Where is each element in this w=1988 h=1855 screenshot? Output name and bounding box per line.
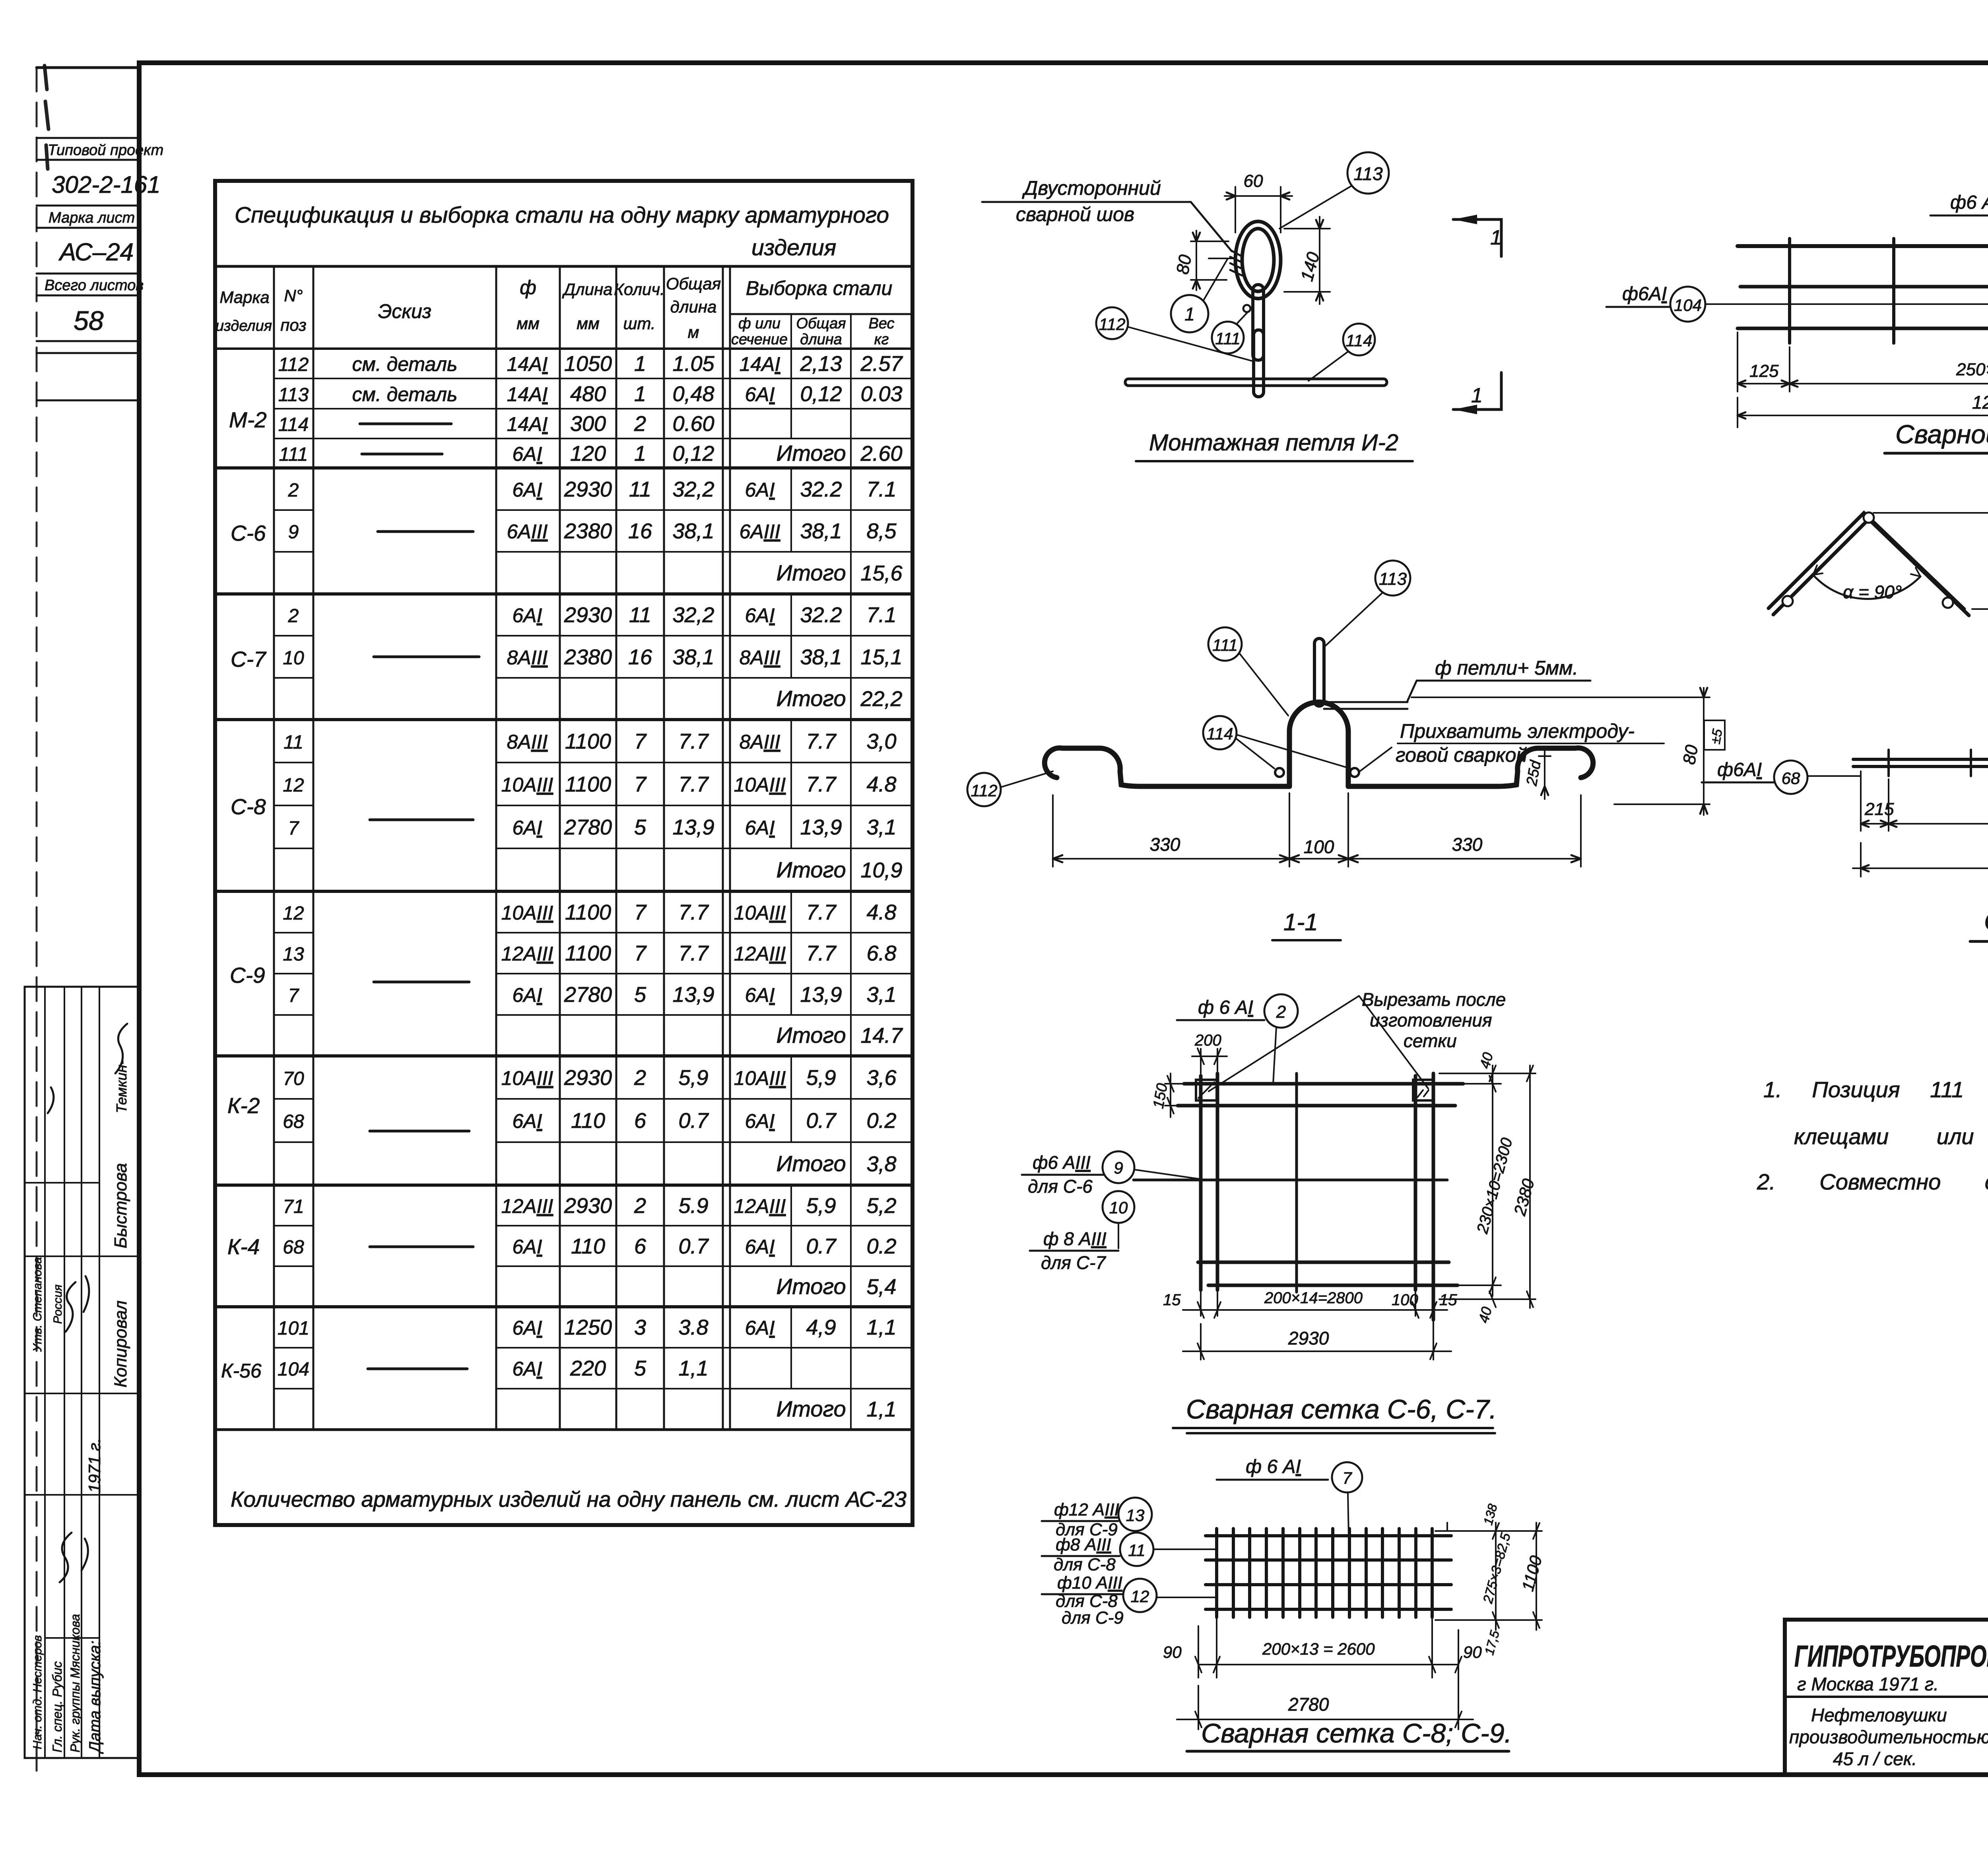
label circle 113 [1347, 152, 1389, 194]
svg-text:6АI: 6АI [512, 479, 542, 501]
svg-text:1,1: 1,1 [866, 1397, 896, 1421]
label circle 1 [1171, 295, 1208, 332]
label f8AIII circle 10 (C-7) [1103, 1191, 1134, 1223]
svg-text:1250: 1250 [1972, 392, 1988, 413]
svg-text:200×13 = 2600: 200×13 = 2600 [1262, 1640, 1375, 1658]
svg-text:2: 2 [634, 1066, 646, 1090]
svg-text:14АI: 14АI [507, 413, 548, 435]
vertical x8 with merged Itogo gaps [790, 314, 792, 1389]
leaders to corner squares [1209, 996, 1428, 1091]
dim 60 top [1225, 187, 1292, 233]
table body text [278, 352, 903, 1421]
svg-text:113: 113 [1353, 163, 1383, 184]
row lines K-2 [274, 1099, 912, 1142]
svg-text:Итого: Итого [776, 686, 846, 711]
svg-text:5,2: 5,2 [866, 1194, 896, 1218]
right dim extensions [1435, 1523, 1542, 1630]
angle arc and label [1813, 575, 1920, 599]
welded mesh C-6 C-7 [1022, 989, 1538, 1433]
svg-text:12АIII: 12АIII [734, 1195, 786, 1217]
svg-text:для С-8: для С-8 [1054, 1555, 1116, 1574]
svg-text:38,1: 38,1 [800, 645, 842, 669]
svg-text:Типовой проект: Типовой проект [48, 142, 163, 159]
row lines C-7 [274, 636, 912, 678]
horizontal bars [1184, 1082, 1463, 1086]
svg-text:101: 101 [278, 1318, 309, 1339]
svg-text:12: 12 [283, 775, 304, 796]
svg-text:Прихватить электроду-: Прихватить электроду- [1400, 720, 1635, 742]
svg-text:длина: длина [800, 331, 842, 348]
svg-text:15: 15 [1439, 1291, 1457, 1309]
svg-text:для С-7: для С-7 [1041, 1252, 1106, 1273]
svg-text:Дата выпуска:: Дата выпуска: [86, 1641, 104, 1754]
svg-text:32,2: 32,2 [672, 477, 714, 501]
bent wire tent [1769, 513, 1964, 609]
svg-text:1050: 1050 [564, 352, 612, 376]
svg-text:4.8: 4.8 [866, 900, 896, 924]
svg-text:1100: 1100 [565, 941, 611, 965]
svg-text:114: 114 [278, 414, 309, 435]
svg-text:2930: 2930 [564, 1194, 612, 1218]
svg-text:2: 2 [288, 480, 299, 501]
specification table [215, 181, 912, 1525]
svg-text:3,8: 3,8 [866, 1152, 896, 1176]
rod lower end through bar [1254, 374, 1264, 396]
svg-text:9: 9 [1114, 1158, 1123, 1177]
svg-text:111: 111 [1212, 636, 1238, 654]
svg-text:Общая: Общая [796, 315, 846, 332]
section 1-1 drawing [967, 561, 1725, 940]
svg-text:11: 11 [629, 477, 651, 501]
svg-text:2: 2 [634, 1194, 646, 1218]
svg-text:1-1: 1-1 [1283, 909, 1318, 935]
svg-text:Монтажная петля И-2: Монтажная петля И-2 [1149, 430, 1398, 456]
svg-text:5,9: 5,9 [678, 1066, 708, 1090]
svg-text:200: 200 [1194, 1032, 1221, 1049]
svg-text:0.03: 0.03 [860, 382, 902, 406]
svg-text:Колич.: Колич. [614, 280, 665, 299]
svg-text:12: 12 [283, 903, 304, 924]
svg-text:Итого: Итого [776, 440, 846, 466]
svg-text:6АIII: 6АIII [507, 520, 548, 543]
row lines K-4 [274, 1226, 912, 1266]
svg-text:С-8: С-8 [231, 794, 266, 819]
grid verticals [1217, 1529, 1432, 1617]
svg-text:2. Совместно см. лист АС-23.: 2. Совместно см. лист АС-23. [1757, 1169, 1988, 1194]
svg-text:14АI: 14АI [740, 353, 780, 375]
svg-text:ф 6 АI: ф 6 АI [1198, 997, 1253, 1018]
svg-text:0.7: 0.7 [678, 1109, 709, 1133]
svg-text:производительностью: производительностью [1789, 1727, 1988, 1747]
svg-text:14АI: 14АI [507, 383, 548, 406]
svg-text:3,6: 3,6 [866, 1066, 897, 1090]
svg-text:2380: 2380 [564, 519, 612, 543]
svg-text:С-7: С-7 [231, 647, 267, 671]
svg-text:3,0: 3,0 [866, 730, 896, 753]
svg-text:Эскиз: Эскиз [378, 300, 431, 322]
svg-text:Гл. спец. Рубис: Гл. спец. Рубис [50, 1661, 64, 1752]
svg-text:120: 120 [570, 442, 606, 466]
svg-text:8АIII: 8АIII [507, 646, 548, 669]
svg-text:5.9: 5.9 [678, 1194, 708, 1218]
svg-text:220: 220 [570, 1356, 606, 1380]
label circle 111 [1212, 322, 1244, 353]
svg-text:10: 10 [283, 648, 304, 669]
svg-text:±5: ±5 [1708, 728, 1725, 745]
svg-text:1: 1 [634, 382, 646, 406]
svg-text:80: 80 [1679, 743, 1702, 766]
svg-text:10: 10 [1109, 1198, 1128, 1217]
svg-text:2930: 2930 [564, 603, 612, 627]
svg-text:2380: 2380 [564, 645, 612, 669]
svg-text:1971 г.: 1971 г. [85, 1438, 104, 1493]
grid horizontals [1206, 1536, 1451, 1609]
label circle 111 [1208, 627, 1242, 661]
svg-text:2,13: 2,13 [800, 352, 842, 376]
svg-text:112: 112 [1099, 315, 1126, 334]
bottom dim 2930 [1183, 1324, 1451, 1360]
svg-text:7.7: 7.7 [678, 730, 709, 753]
svg-text:Утв. Степанова: Утв. Степанова [31, 1257, 44, 1352]
svg-text:С-6: С-6 [231, 521, 266, 545]
svg-text:Количество арматурных издели: Количество арматурных изделий на одну па… [231, 1487, 907, 1512]
svg-text:сетки: сетки [1404, 1030, 1457, 1051]
weld dots [1275, 768, 1284, 777]
svg-text:6.8: 6.8 [866, 941, 896, 965]
svg-text:сварной шов: сварной шов [1016, 203, 1134, 225]
svg-text:4,9: 4,9 [806, 1316, 836, 1339]
svg-text:7: 7 [1342, 1469, 1352, 1487]
svg-text:ф6АI: ф6АI [1717, 759, 1762, 780]
svg-text:6АI: 6АI [512, 984, 542, 1006]
svg-text:11: 11 [629, 603, 651, 627]
svg-text:6АI: 6АI [745, 817, 775, 839]
svg-text:9: 9 [288, 522, 299, 543]
dim 2780 [1177, 1686, 1473, 1729]
svg-text:3: 3 [634, 1316, 646, 1339]
stub pos 113 on top [1314, 638, 1324, 706]
svg-text:104: 104 [1674, 296, 1702, 314]
bent wire: left hook and arm [1044, 748, 1289, 786]
mounting loop drawing (Монтажная петля И-2) [982, 152, 1502, 461]
leader box from 80 dim to weld [1209, 258, 1236, 259]
svg-text:15: 15 [1163, 1291, 1181, 1309]
svg-text:45 л / сек.: 45 л / сек. [1833, 1748, 1917, 1769]
svg-text:7: 7 [288, 985, 300, 1006]
svg-text:215: 215 [1864, 799, 1894, 819]
svg-text:11: 11 [283, 732, 303, 753]
svg-text:112: 112 [278, 354, 309, 375]
svg-text:мм: мм [577, 314, 600, 333]
svg-text:38,1: 38,1 [800, 519, 842, 543]
svg-text:300: 300 [570, 412, 606, 436]
svg-text:6АI: 6АI [745, 984, 775, 1006]
K-56 after bending (заготовка) [1769, 502, 1988, 671]
svg-text:ф 6 АI: ф 6 АI [1246, 1456, 1301, 1477]
svg-text:10АIII: 10АIII [501, 1067, 553, 1089]
svg-text:13: 13 [283, 944, 304, 965]
svg-text:6АI: 6АI [512, 1317, 542, 1339]
svg-text:250×4 = 1000: 250×4 = 1000 [1956, 360, 1988, 379]
svg-text:5,9: 5,9 [806, 1066, 836, 1090]
svg-text:Итого: Итого [776, 560, 846, 585]
svg-text:5: 5 [634, 983, 646, 1007]
svg-text:1: 1 [634, 442, 646, 466]
svg-text:Вес: Вес [868, 315, 894, 332]
svg-text:13,9: 13,9 [672, 983, 714, 1007]
svg-text:13,9: 13,9 [800, 815, 842, 839]
svg-text:71: 71 [283, 1196, 304, 1217]
svg-text:длина: длина [670, 297, 717, 316]
svg-text:114: 114 [1207, 724, 1233, 743]
svg-text:10АIII: 10АIII [734, 774, 786, 796]
label circle 114 with two leaders [1203, 716, 1237, 749]
svg-text:2.57: 2.57 [860, 352, 903, 376]
svg-text:сечение: сечение [731, 331, 788, 348]
svg-text:1: 1 [1184, 304, 1195, 324]
svg-text:Двусторонний: Двусторонний [1022, 177, 1161, 199]
svg-text:ф8 АIII: ф8 АIII [1056, 1535, 1111, 1554]
table grid verticals [274, 266, 664, 1430]
svg-text:480: 480 [570, 382, 606, 406]
bottom dims 90 / 200x13=2600 / 90 [1198, 1617, 1458, 1729]
svg-text:58: 58 [74, 306, 104, 336]
svg-text:111: 111 [279, 444, 308, 465]
vertical bars (pos 104) [1790, 239, 1988, 343]
svg-text:1,1: 1,1 [678, 1356, 708, 1380]
svg-text:13,9: 13,9 [800, 983, 842, 1007]
dim 80±5 right [1411, 688, 1710, 815]
svg-text:8АIII: 8АIII [740, 731, 780, 753]
svg-text:7: 7 [634, 730, 647, 753]
rod pos 112 vertical [1253, 285, 1264, 360]
dim 200 top-left [1192, 1049, 1227, 1073]
svg-text:см. деталь: см. деталь [352, 383, 458, 406]
svg-text:ГИПРОТРУБОПРОВОД: ГИПРОТРУБОПРОВОД [1794, 1640, 1988, 1673]
svg-text:Нач. отд. Нестеров: Нач. отд. Нестеров [31, 1635, 44, 1749]
svg-text:32.2: 32.2 [800, 603, 842, 627]
bar 114 side lines [1324, 702, 1408, 709]
svg-text:Марка лист: Марка лист [49, 210, 135, 226]
svg-text:ф петли+ 5мм.: ф петли+ 5мм. [1435, 657, 1578, 679]
sketch dashes [360, 424, 451, 454]
signature scribbles [48, 1024, 127, 1582]
svg-text:1. Позиция 111 приваривается: 1. Позиция 111 приваривается к петле сва… [1763, 1077, 1988, 1102]
title block [1785, 1620, 1988, 1775]
svg-text:12АIII: 12АIII [501, 943, 553, 965]
svg-text:6АI: 6АI [512, 1358, 542, 1380]
svg-text:22,2: 22,2 [860, 687, 902, 711]
svg-text:12: 12 [1131, 1587, 1149, 1606]
svg-text:38,1: 38,1 [672, 519, 714, 543]
svg-text:Общая: Общая [666, 274, 721, 293]
svg-text:6АI: 6АI [512, 1236, 542, 1258]
right dims 40 / 230x10=2300 / 2380 / 40 [1437, 1065, 1536, 1308]
svg-text:Марка: Марка [219, 288, 269, 307]
svg-text:6АI: 6АI [512, 604, 542, 627]
svg-text:7: 7 [634, 772, 647, 796]
svg-text:7.7: 7.7 [806, 941, 837, 965]
svg-text:2.60: 2.60 [860, 442, 902, 466]
svg-text:С-9: С-9 [230, 963, 265, 988]
section mark 1 top [1453, 219, 1501, 256]
svg-text:10АIII: 10АIII [734, 1067, 786, 1089]
svg-text:100: 100 [1304, 836, 1334, 857]
svg-text:кг: кг [874, 331, 889, 348]
svg-text:16: 16 [628, 519, 652, 543]
svg-text:7.7: 7.7 [806, 730, 837, 753]
dim 25d [1539, 749, 1551, 799]
svg-text:К-4: К-4 [227, 1234, 260, 1259]
label f6AIII circle 9 (C-6) [1028, 1152, 1093, 1197]
row lines C-6 [274, 510, 912, 552]
svg-text:330: 330 [1150, 834, 1180, 855]
svg-text:3,1: 3,1 [866, 815, 896, 839]
svg-text:6: 6 [634, 1234, 646, 1258]
svg-text:100: 100 [1392, 1291, 1418, 1309]
svg-text:ф6 АI: ф6 АI [1950, 192, 1988, 213]
svg-text:α = 90°: α = 90° [1843, 582, 1902, 602]
weld note text [1016, 177, 1161, 225]
svg-text:см. деталь: см. деталь [352, 353, 458, 375]
svg-text:1,1: 1,1 [866, 1316, 896, 1339]
svg-text:1.05: 1.05 [672, 352, 714, 376]
table title [235, 202, 889, 260]
svg-text:Рук. группы Мясникова: Рук. группы Мясникова [68, 1614, 82, 1752]
svg-text:3,1: 3,1 [866, 983, 896, 1007]
svg-text:ф6АI: ф6АI [1622, 283, 1667, 305]
svg-text:113: 113 [278, 384, 309, 406]
svg-text:12АIII: 12АIII [501, 1195, 553, 1217]
svg-text:Сварной каркас К-2; К-4: Сварной каркас К-2; К-4 [1984, 906, 1988, 936]
svg-text:ф или: ф или [738, 315, 780, 332]
svg-text:0,48: 0,48 [672, 382, 714, 406]
svg-text:38,1: 38,1 [672, 645, 714, 669]
svg-text:2: 2 [634, 412, 646, 436]
svg-text:1100: 1100 [565, 900, 611, 924]
svg-text:1: 1 [1471, 384, 1483, 407]
svg-text:6АI: 6АI [745, 604, 775, 627]
row lines C-8 [274, 763, 912, 848]
svg-text:изготовления: изготовления [1370, 1010, 1492, 1030]
dim 80 left [1191, 231, 1229, 290]
svg-text:7: 7 [288, 818, 300, 839]
svg-text:Итого: Итого [776, 1274, 846, 1299]
bottom-left stamp (rotated signature block) [25, 987, 139, 1758]
svg-text:N°: N° [284, 286, 303, 305]
svg-text:15,1: 15,1 [860, 645, 902, 669]
dims 125 / 250x4=1000 / 125 [1738, 328, 1988, 392]
svg-text:230×10=2300: 230×10=2300 [1474, 1136, 1516, 1236]
svg-text:Вырезать после: Вырезать после [1362, 989, 1506, 1010]
svg-text:2780: 2780 [564, 815, 612, 839]
svg-text:0.2: 0.2 [866, 1109, 896, 1133]
header text [215, 274, 895, 348]
svg-text:Быстрова: Быстрова [111, 1163, 130, 1248]
svg-text:Спецификация и выборка стали н: Спецификация и выборка стали на одну мар… [235, 202, 889, 228]
svg-text:3.8: 3.8 [678, 1316, 708, 1339]
svg-text:мм: мм [516, 314, 540, 333]
svg-text:8,5: 8,5 [866, 519, 897, 543]
svg-text:изделия: изделия [215, 318, 272, 334]
svg-text:Всего листов: Всего листов [45, 277, 144, 294]
central U [1289, 702, 1348, 786]
svg-text:7.7: 7.7 [678, 900, 709, 924]
svg-text:6АI: 6АI [745, 1236, 775, 1258]
svg-text:для С-9: для С-9 [1062, 1608, 1124, 1628]
svg-text:4.8: 4.8 [866, 772, 896, 796]
svg-text:2: 2 [1276, 1002, 1286, 1022]
svg-text:40: 40 [1475, 1305, 1495, 1325]
svg-text:2930: 2930 [564, 1066, 612, 1090]
right arm and hook [1348, 748, 1593, 786]
svg-text:Россия: Россия [51, 1285, 64, 1324]
svg-text:8АIII: 8АIII [507, 731, 548, 753]
svg-text:17,5: 17,5 [1482, 1629, 1502, 1657]
svg-text:5: 5 [634, 1356, 646, 1380]
right double verticals [1415, 1073, 1433, 1320]
loop ring (pos 113) [1235, 221, 1281, 299]
svg-text:68: 68 [283, 1111, 304, 1132]
sheet left torn edge [36, 68, 38, 1773]
svg-text:Сварной каркас К-56: Сварной каркас К-56 [1895, 419, 1988, 449]
corner cut squares [1196, 1080, 1217, 1100]
svg-text:5,9: 5,9 [806, 1194, 836, 1218]
svg-text:14.7: 14.7 [860, 1024, 903, 1048]
svg-text:изделия: изделия [751, 235, 836, 260]
weld dot pos 111 [1243, 305, 1250, 312]
svg-text:70: 70 [283, 1068, 304, 1089]
svg-text:ф6 АIII: ф6 АIII [1033, 1152, 1091, 1173]
svg-text:0,12: 0,12 [800, 382, 842, 406]
dim 1250 [1738, 415, 1988, 416]
svg-text:90: 90 [1163, 1643, 1182, 1661]
svg-text:112: 112 [971, 781, 998, 800]
svg-text:16: 16 [628, 645, 652, 669]
svg-text:0.7: 0.7 [806, 1109, 837, 1133]
svg-text:Сварная сетка С-8; С-9.: Сварная сетка С-8; С-9. [1201, 1718, 1512, 1748]
svg-text:10АIII: 10АIII [734, 902, 786, 924]
mesh bars: left double verticals [1201, 1073, 1217, 1290]
svg-text:ф12 АIII: ф12 АIII [1054, 1500, 1119, 1519]
svg-text:60: 60 [1244, 171, 1263, 191]
svg-text:0.7: 0.7 [806, 1234, 837, 1258]
note cut after fabrication [1362, 989, 1506, 1051]
table grid horizontals [215, 265, 912, 268]
svg-text:2: 2 [288, 605, 299, 627]
svg-text:ф10 АIII: ф10 АIII [1057, 1573, 1122, 1593]
svg-text:7.7: 7.7 [806, 772, 837, 796]
short cross ticks (pos 68) [1889, 750, 1988, 776]
svg-text:7.1: 7.1 [866, 603, 896, 627]
svg-text:7.7: 7.7 [806, 900, 837, 924]
bottom dims 215 / 500x5=2500 / 215 [1861, 771, 1988, 831]
svg-text:0.60: 0.60 [672, 412, 714, 436]
welded mesh C-8 C-9 [1042, 1456, 1545, 1751]
svg-text:200×14=2800: 200×14=2800 [1264, 1289, 1363, 1307]
svg-text:0.7: 0.7 [678, 1234, 709, 1258]
dim 140 right [1284, 217, 1330, 304]
svg-text:14АI: 14АI [507, 353, 548, 375]
svg-text:6АI: 6АI [745, 479, 775, 501]
svg-text:м: м [688, 323, 699, 342]
welded frame K-2 K-4 [1702, 672, 1988, 941]
svg-text:80: 80 [1173, 253, 1196, 276]
weld note underline + leader [982, 202, 1232, 251]
svg-text:2380: 2380 [1510, 1176, 1538, 1218]
svg-text:13,9: 13,9 [672, 815, 714, 839]
dim 2930 [1853, 843, 1988, 877]
